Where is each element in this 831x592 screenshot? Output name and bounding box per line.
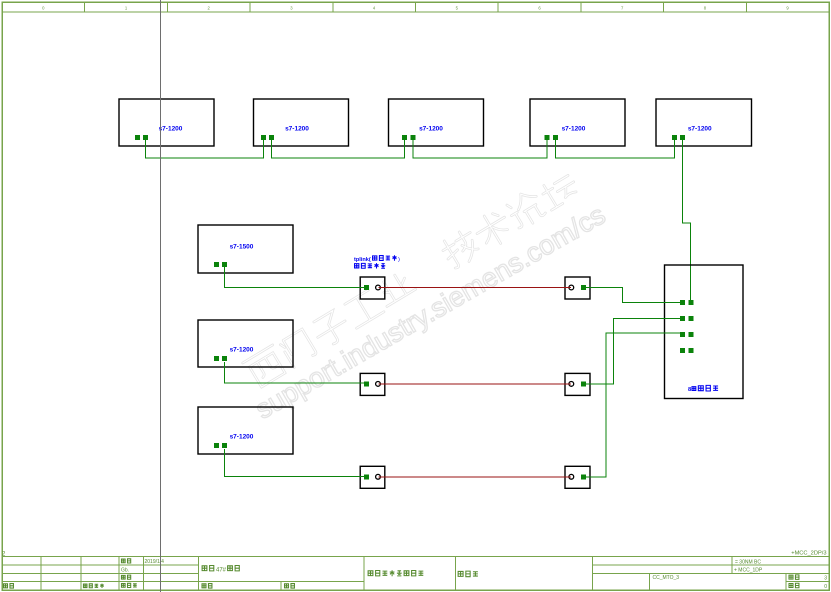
watermark: URL line	[250, 199, 611, 425]
wire X2 to switch port A1	[586, 287, 680, 302]
PLC U2 port 1	[261, 135, 266, 140]
wire U7 port2 to X3	[225, 362, 365, 383]
svg-text:6: 6	[538, 6, 541, 11]
PLC U2 box	[254, 99, 349, 146]
switch port A2	[680, 316, 685, 321]
title block bottom row: signature label	[202, 584, 212, 589]
svg-text:3: 3	[290, 6, 293, 11]
svg-text:s7-1200: s7-1200	[285, 126, 309, 133]
PLC U4 port 2	[553, 135, 558, 140]
svg-text:s7-1500: s7-1500	[230, 244, 254, 251]
PLC U6 port 2	[222, 262, 227, 267]
svg-text:0: 0	[42, 6, 45, 11]
svg-text:8: 8	[688, 387, 692, 393]
switch port B1	[688, 300, 693, 305]
title block company cell	[368, 570, 423, 576]
PLC U5 port 2	[680, 135, 685, 140]
svg-text:s7-1200: s7-1200	[688, 126, 712, 133]
svg-text:+ MCC_1DP: + MCC_1DP	[734, 568, 763, 574]
transceiver X4 box	[565, 373, 590, 395]
svg-text:Gb.: Gb.	[121, 568, 129, 574]
switch box	[665, 265, 744, 399]
transceiver X4 optical port	[569, 382, 574, 387]
svg-text:9: 9	[786, 6, 789, 11]
border header row line	[2, 11, 829, 13]
wire U4 port2 to U5 port1	[556, 140, 675, 158]
transceiver X1 optical port	[376, 285, 381, 290]
PLC U3 box	[389, 99, 484, 146]
watermark: Chinese line	[242, 168, 582, 390]
svg-text:5: 5	[456, 6, 459, 11]
transceiver X3 electrical port	[364, 381, 369, 386]
wire X6 to switch port A3	[586, 333, 680, 477]
switch port A4	[680, 348, 685, 353]
switch port B2	[688, 316, 693, 321]
title block bottom row: revision label	[4, 584, 14, 589]
title block grid	[2, 557, 829, 591]
transceiver X3 box	[360, 373, 385, 395]
svg-text:support.industry.siemens.com/c: support.industry.siemens.com/cs	[250, 199, 611, 425]
transceiver X1 electrical port	[364, 285, 369, 290]
svg-text:4: 4	[373, 6, 376, 11]
transceiver X5 optical port	[376, 474, 381, 479]
fiber wire X3 to X4	[379, 383, 572, 385]
transceiver X5 box	[360, 466, 385, 488]
fiber wire X1 to X2	[379, 286, 572, 288]
wire U8 port2 to X5	[225, 449, 365, 476]
PLC U7 port 2	[222, 356, 227, 361]
PLC U8 box	[198, 407, 293, 454]
svg-text:s7-1200: s7-1200	[230, 434, 254, 441]
switch port B3	[688, 332, 693, 337]
wire X4 to switch port A2	[586, 318, 680, 384]
svg-text:CC_MTO_3: CC_MTO_3	[653, 575, 680, 581]
PLC U1 box	[119, 99, 214, 146]
PLC U2 port 2	[269, 135, 274, 140]
transceiver X5 electrical port	[364, 474, 369, 479]
svg-text:= 30NM BC: = 30NM BC	[735, 559, 761, 565]
svg-text:47#: 47#	[216, 567, 227, 573]
PLC U8 port 1	[214, 443, 219, 448]
svg-text:s7-1200: s7-1200	[230, 347, 254, 354]
PLC U3 port 1	[402, 135, 407, 140]
switch port A3	[680, 332, 685, 337]
transceiver X6 electrical port	[581, 474, 586, 479]
page fold line	[160, 0, 162, 592]
PLC U1 port 2	[143, 135, 148, 140]
fiber wire X5 to X6	[379, 476, 572, 478]
title block sheet cell row1	[789, 575, 799, 580]
switch port B4	[688, 348, 693, 353]
border header column numbers	[42, 6, 789, 11]
PLC U1 port 1	[135, 135, 140, 140]
title block sheet cell row2	[789, 583, 799, 588]
svg-text:s7-1200: s7-1200	[419, 126, 443, 133]
PLC U4 box	[530, 99, 625, 146]
title block drawing title cell	[458, 571, 478, 577]
transceiver X6 optical port	[569, 474, 574, 479]
svg-text:s7-1200: s7-1200	[159, 126, 183, 133]
transceiver X3 optical port	[376, 382, 381, 387]
PLC U6 box	[198, 225, 293, 273]
svg-text:8: 8	[704, 6, 707, 11]
svg-text:1: 1	[125, 6, 128, 11]
wire U2 port2 to U3 port1	[272, 140, 405, 158]
transceiver X2 electrical port	[581, 285, 586, 290]
wire U6 port2 to X1	[225, 267, 365, 287]
transceiver X1 box	[360, 277, 385, 299]
wire U5 port2 to switch port B1	[682, 140, 690, 300]
PLC U8 port 2	[222, 443, 227, 448]
svg-text:+MCC_2DP/3: +MCC_2DP/3	[791, 551, 826, 557]
transceiver label line 2	[355, 263, 386, 268]
svg-text:2019/1/4: 2019/1/4	[145, 559, 165, 565]
svg-text:s7-1200: s7-1200	[562, 126, 586, 133]
wire U1 port2 to U2 port1	[146, 140, 264, 158]
title block project name	[202, 566, 214, 571]
svg-text:7: 7	[621, 6, 624, 11]
transceiver X2 box	[565, 277, 590, 299]
PLC U4 port 1	[544, 135, 549, 140]
PLC U7 port 1	[214, 356, 219, 361]
wire U3 port2 to U4 port1	[413, 140, 547, 158]
svg-text:0: 0	[824, 584, 827, 590]
transceiver X4 electrical port	[581, 381, 586, 386]
title block bottom row: date label	[285, 584, 295, 589]
title block bottom row: type label	[83, 584, 103, 588]
border header column ticks	[85, 2, 747, 12]
PLC U6 port 1	[214, 262, 219, 267]
svg-text:2: 2	[208, 6, 211, 11]
PLC U5 port 1	[672, 135, 677, 140]
PLC U7 box	[198, 320, 293, 367]
PLC U5 box	[656, 99, 752, 146]
title block labels column	[121, 559, 130, 563]
PLC U3 port 2	[411, 135, 416, 140]
svg-text:): )	[398, 257, 400, 263]
svg-text:3: 3	[824, 575, 827, 581]
transceiver X2 optical port	[569, 285, 574, 290]
transceiver X6 box	[565, 466, 590, 488]
svg-text:tplink(: tplink(	[354, 257, 371, 263]
switch port A1	[680, 300, 685, 305]
